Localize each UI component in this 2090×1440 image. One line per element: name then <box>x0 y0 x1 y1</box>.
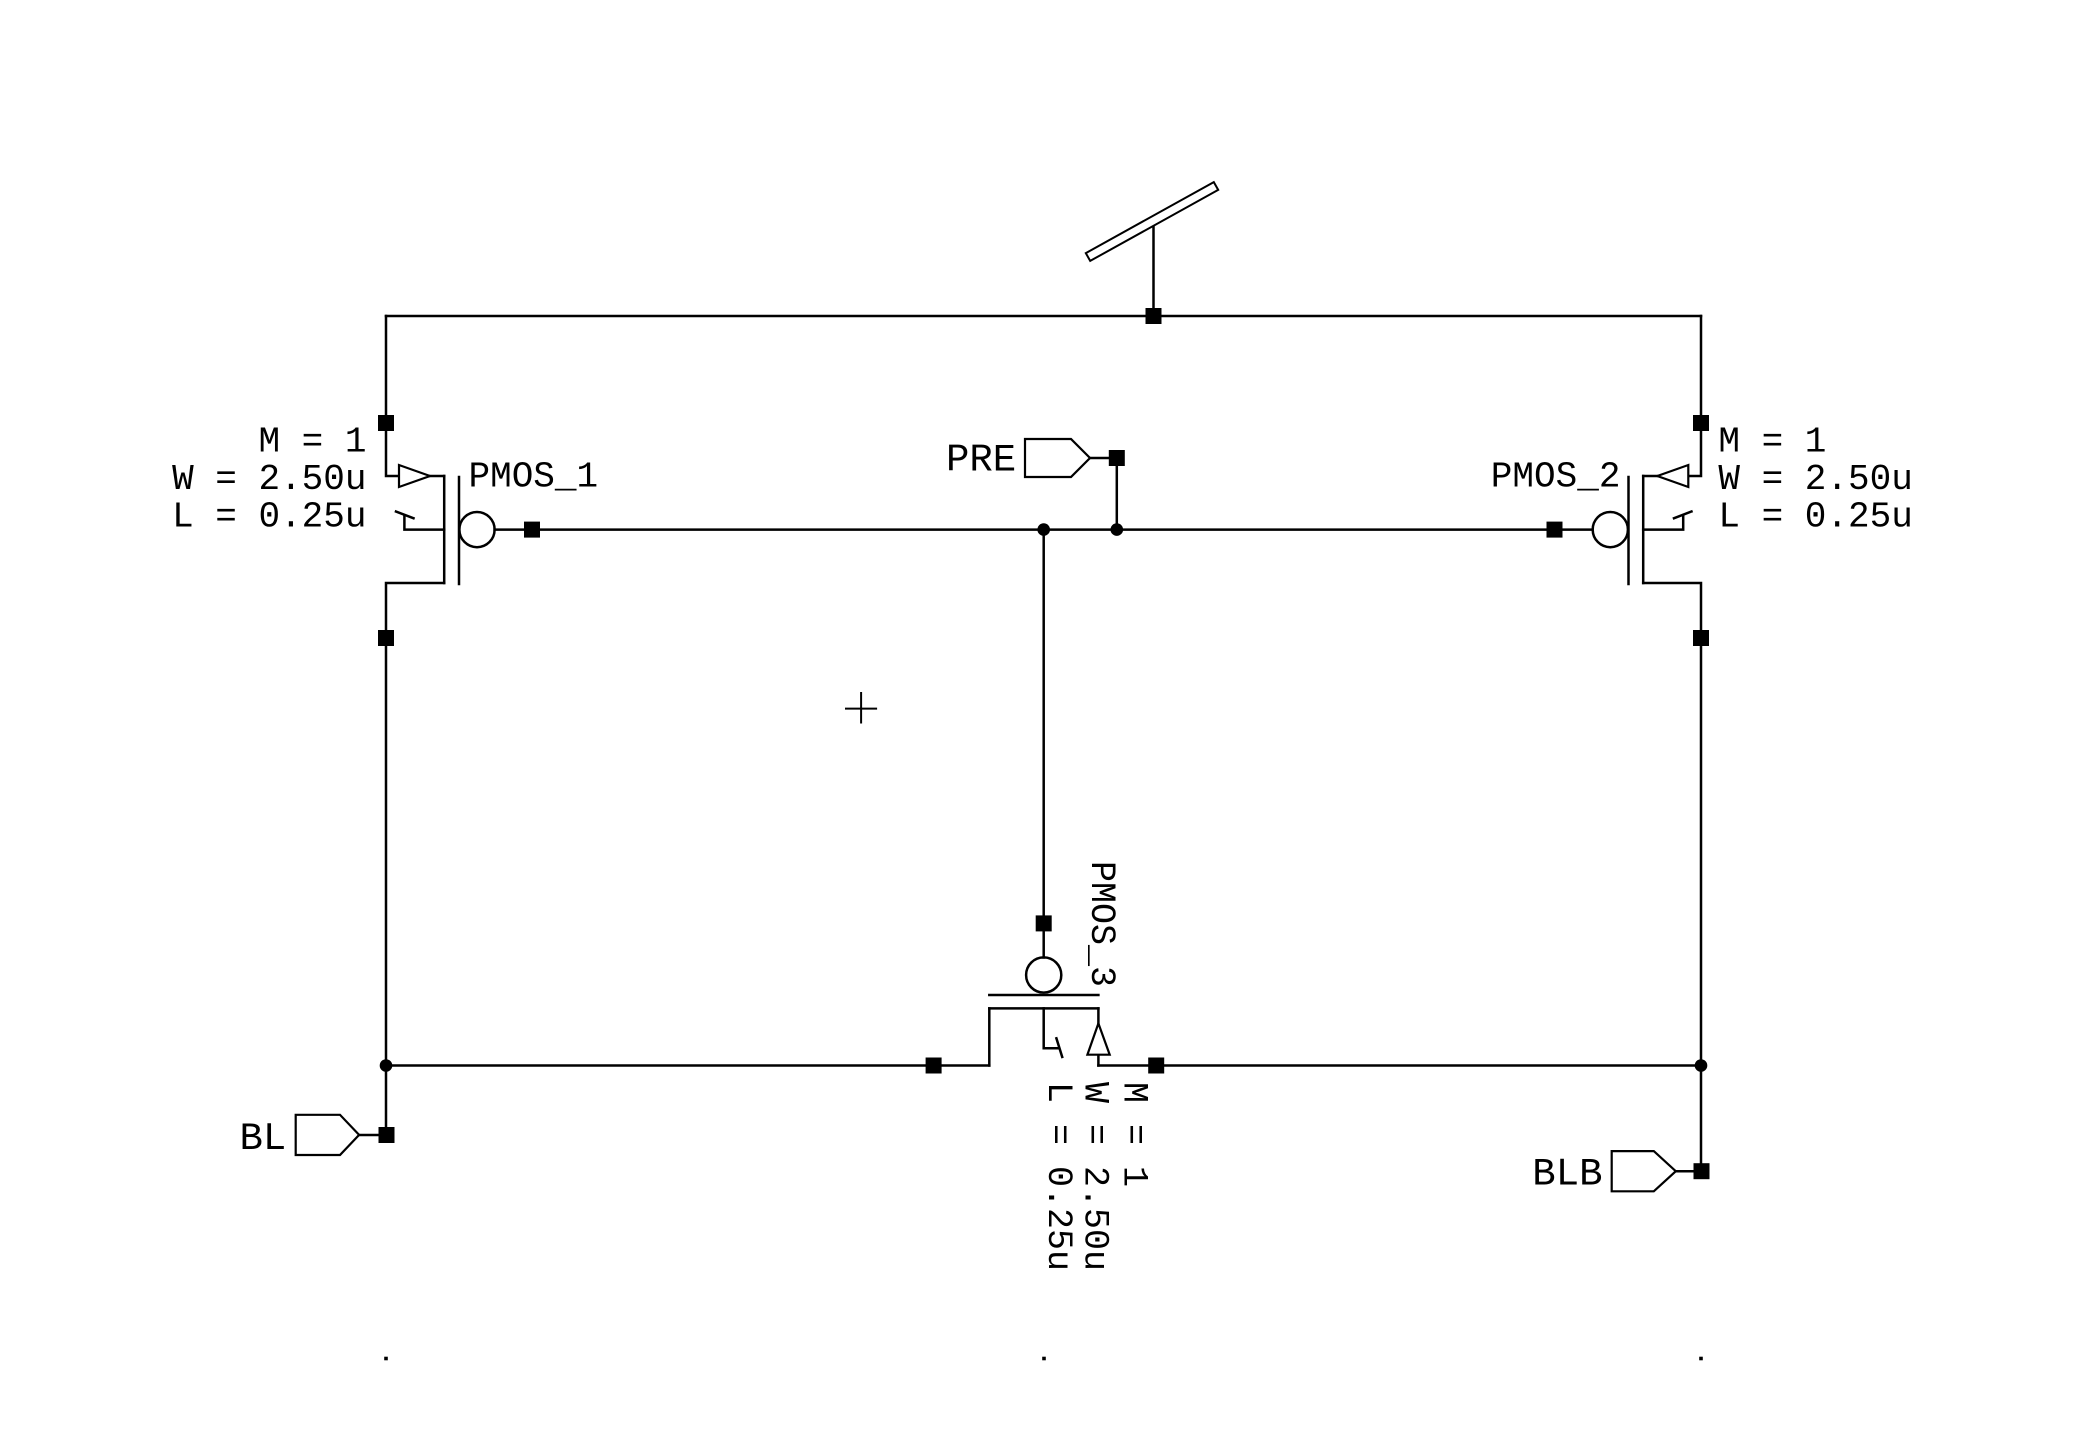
svg-text:L = 0.25u: L = 0.25u <box>172 497 366 538</box>
svg-text:PRE: PRE <box>946 439 1016 483</box>
svg-text:PMOS_2: PMOS_2 <box>1491 457 1621 498</box>
svg-text:M = 1: M = 1 <box>1114 1082 1154 1187</box>
svg-text:M = 1: M = 1 <box>258 422 366 463</box>
svg-text:W = 2.50u: W = 2.50u <box>172 459 366 500</box>
svg-text:BLB: BLB <box>1532 1153 1602 1197</box>
svg-text:L = 0.25u: L = 0.25u <box>1038 1082 1078 1271</box>
svg-text:PMOS_1: PMOS_1 <box>469 457 599 498</box>
svg-text:W = 2.50u: W = 2.50u <box>1075 1082 1115 1271</box>
svg-text:PMOS_3: PMOS_3 <box>1081 861 1121 987</box>
svg-text:L = 0.25u: L = 0.25u <box>1718 497 1912 538</box>
svg-text:BL: BL <box>240 1117 287 1161</box>
svg-text:M = 1: M = 1 <box>1718 422 1826 463</box>
svg-text:W = 2.50u: W = 2.50u <box>1718 459 1912 500</box>
